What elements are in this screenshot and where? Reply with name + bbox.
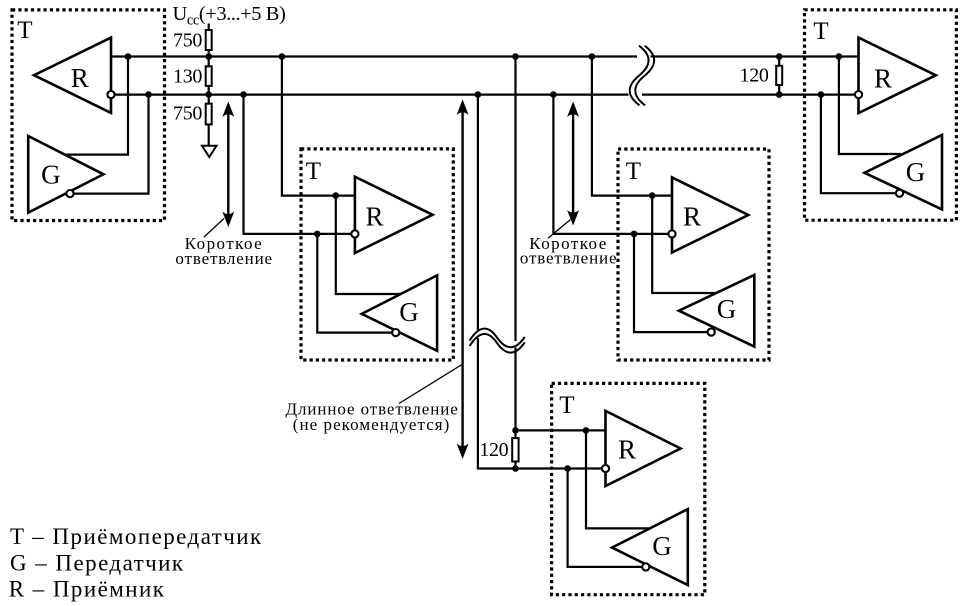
svg-text:750: 750: [173, 30, 202, 52]
pointer line to long branch label: [399, 365, 462, 404]
node: T5 G output B junction: [818, 91, 825, 98]
inverting output bubble of T1 G: [66, 190, 73, 197]
transceiver box T4 (bottom dotted border): [552, 383, 705, 594]
wire: 120 resistor bottom lead: [514, 462, 516, 469]
svg-text:Ucc(+3...+5 В): Ucc(+3...+5 В): [173, 3, 286, 29]
receiver R of T4 (triangle pointing right): [606, 411, 681, 486]
driver G of T1 (triangle pointing right): [28, 136, 103, 213]
transceiver box T3 (middle-right dotted border): [618, 149, 769, 360]
wire: short stub from line B to T3 R inverting input: [553, 95, 672, 234]
node: T3 internal B junction: [631, 231, 638, 238]
driver G of T2 (triangle pointing left): [362, 275, 437, 350]
inverting input bubble of T4 R: [602, 465, 609, 472]
resistor 130 (middle termination): [206, 66, 212, 86]
svg-text:(не рекомендуется): (не рекомендуется): [293, 415, 451, 434]
wire: T1 G inverting output to bus line B: [70, 95, 149, 194]
break symbol on bus (wavy lines): [630, 46, 649, 106]
node: T2 internal A junction: [333, 192, 340, 199]
svg-text:G: G: [652, 531, 672, 561]
receiver R of T2 (triangle pointing right): [355, 177, 433, 253]
receiver R of T3 (triangle pointing right): [672, 177, 748, 252]
inverting input bubble of T2 R: [351, 230, 358, 237]
wire: short stub from line B to T2 R inverting input: [244, 95, 355, 234]
svg-text:ответвление: ответвление: [520, 248, 618, 267]
node: 120 resistor bottom junction: [512, 465, 519, 472]
wire: T4 A feed horizontal: [516, 429, 606, 431]
wire: long branch B (upper part): [477, 95, 479, 331]
node: chain junction on line B: [205, 91, 212, 98]
driver G of T3 (triangle pointing left): [679, 275, 754, 347]
resistor 120 (right termination) leads: [778, 57, 780, 95]
resistor 120 (bottom termination): [512, 438, 518, 461]
wire: long branch A (lower part): [514, 348, 516, 439]
annotation arrow: long branch (double-headed): [457, 100, 469, 460]
wire: T4 G inverting output to B feed: [568, 469, 646, 567]
svg-text:750: 750: [173, 103, 202, 125]
svg-text:T: T: [559, 392, 574, 419]
wire: T5 G inverting output to line B: [821, 95, 900, 194]
node: 120R junction on line A: [776, 53, 783, 60]
wire: T2 G output to A stub: [336, 196, 402, 294]
inverting output bubble of T2 G: [392, 329, 399, 336]
break symbol on long branch (wavy lines): [470, 329, 525, 348]
inverting input bubble of T5 R: [855, 91, 862, 98]
wire: T3 G output to A stub: [652, 196, 717, 293]
wire: bus line A (right segment, upper): [651, 55, 859, 57]
inverting output bubble of T5 G: [896, 190, 903, 197]
transceiver box T2 (middle-left dotted border): [301, 149, 453, 360]
pointer line to right label: [548, 220, 571, 239]
svg-text:130: 130: [173, 66, 202, 88]
node: T2 internal B junction: [314, 231, 321, 238]
svg-text:T: T: [626, 158, 641, 185]
annotation arrow: right short stub (double-headed): [567, 102, 579, 226]
wire: bus line B (left segment, lower): [111, 93, 629, 95]
node: T4 internal A junction: [583, 427, 590, 434]
node: T3 internal A junction: [649, 192, 656, 199]
svg-text:R: R: [71, 63, 89, 93]
node: T2 stub junction on line B: [240, 91, 247, 98]
svg-text:G: G: [906, 157, 926, 187]
ground symbol: [202, 146, 217, 157]
driver G of T5 (triangle pointing left): [865, 135, 943, 210]
node: T4 internal B junction: [564, 465, 571, 472]
node: chain junction on line A: [205, 53, 212, 60]
resistor 750 (lower): [206, 104, 212, 125]
inverting output bubble of T4 G: [642, 563, 649, 570]
svg-text:T – Приёмопередатчик: T – Приёмопередатчик: [10, 524, 263, 549]
svg-text:120: 120: [740, 64, 769, 86]
node: 120 resistor top junction: [512, 427, 519, 434]
resistor 120 (right termination): [776, 66, 782, 85]
transceiver box T1 (top-left dotted border): [12, 10, 165, 221]
svg-text:T: T: [813, 18, 828, 45]
transceiver box T5 (top-right dotted border): [805, 10, 957, 220]
wire: long branch B (lower part): [478, 338, 606, 469]
node: T3 stub junction on line B: [550, 91, 557, 98]
svg-text:R: R: [874, 64, 892, 94]
annotation arrow: left short stub (double-headed): [222, 102, 234, 228]
wire: T3 G inverting output to B stub: [634, 234, 711, 332]
svg-text:T: T: [17, 17, 32, 44]
wire: T5 G output to line A: [839, 57, 901, 155]
svg-text:G: G: [41, 160, 61, 190]
node: T5 G output A junction: [836, 53, 843, 60]
pointer line to left label: [204, 219, 224, 238]
node: 120R junction on line B: [776, 91, 783, 98]
node: T1 G output A junction: [125, 53, 132, 60]
wire: T1 G non-inverting output to bus line A: [62, 57, 128, 155]
driver G of T4 (triangle pointing left): [612, 509, 688, 585]
resistor 750 (upper): [206, 30, 212, 50]
svg-text:R: R: [365, 201, 383, 231]
wire: long branch A (upper part): [514, 57, 516, 342]
svg-text:G – Передатчик: G – Передатчик: [10, 550, 185, 575]
node: long branch junction on line A: [512, 53, 519, 60]
wire: short stub from line A to T3 R input: [592, 57, 672, 196]
svg-text:G: G: [717, 294, 737, 324]
inverting input bubble of T3 R: [668, 230, 675, 237]
svg-text:T: T: [306, 158, 321, 185]
svg-text:120: 120: [479, 439, 508, 461]
svg-text:R – Приёмник: R – Приёмник: [9, 576, 166, 601]
wire: bus line A (left segment, upper): [111, 55, 637, 57]
inverting input bubble of T1 R: [107, 91, 114, 98]
inverting output bubble of T3 G: [708, 329, 715, 336]
wire: bus line B (right segment, lower): [642, 93, 859, 95]
svg-text:G: G: [399, 297, 419, 327]
wire: T4 G output to A feed: [586, 430, 649, 528]
receiver R of T5 (triangle pointing right): [859, 38, 936, 113]
wire: supply rail down through termination chain: [208, 24, 210, 146]
receiver R of T1 (triangle pointing left): [34, 38, 111, 113]
node: T2 stub junction on line A: [279, 53, 286, 60]
wire: T2 G inverting output to B stub: [317, 234, 395, 333]
node: T3 stub junction on line A: [589, 53, 596, 60]
node: T1 G output B junction: [145, 91, 152, 98]
svg-text:R: R: [618, 434, 636, 464]
wire: short stub from line A to T2 R input: [282, 57, 355, 196]
node: long branch junction on line B: [475, 91, 482, 98]
svg-text:R: R: [683, 202, 701, 232]
svg-text:ответвление: ответвление: [175, 249, 273, 268]
